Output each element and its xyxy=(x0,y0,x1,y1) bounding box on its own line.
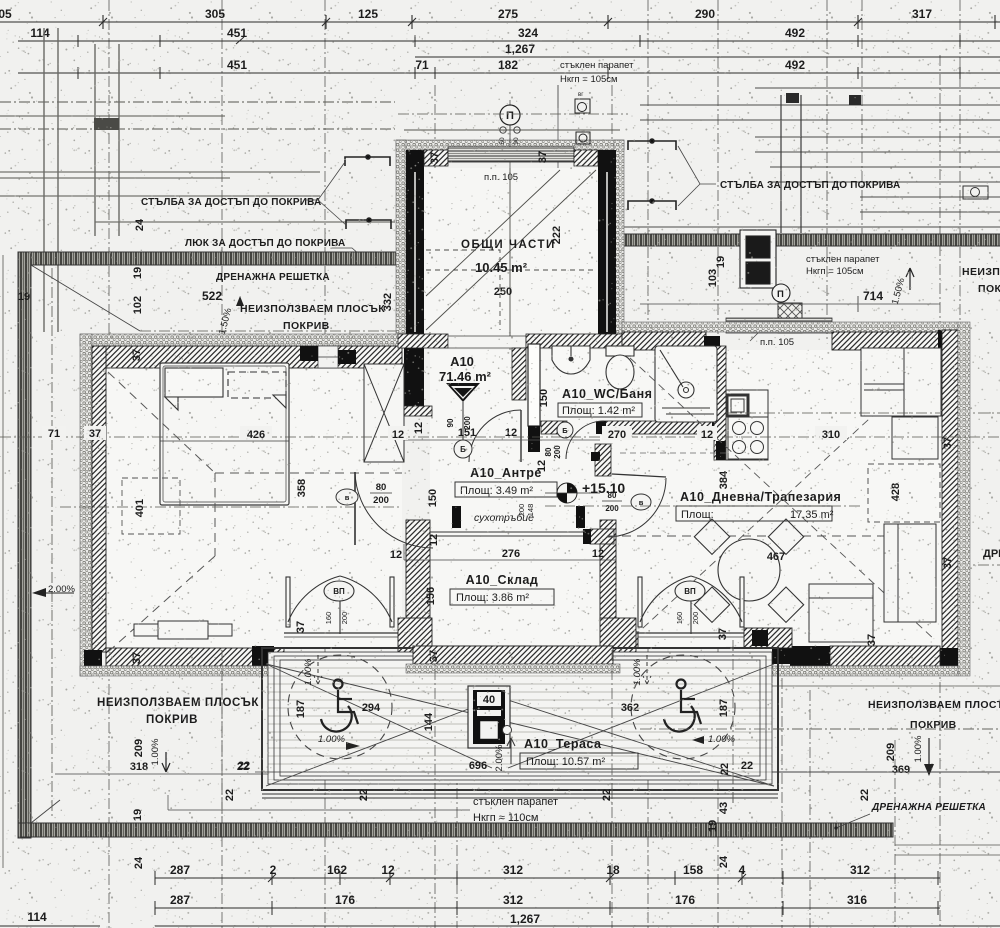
svg-text:287: 287 xyxy=(170,863,190,877)
gridline O xyxy=(894,740,896,928)
pillow 2 dashed xyxy=(228,372,286,408)
entrance triangle marker xyxy=(446,383,480,402)
shower xyxy=(655,346,717,422)
bottom-right stipple xyxy=(752,666,958,676)
gridline B xyxy=(221,0,223,928)
bathroom-living wall xyxy=(714,346,726,460)
storage top boundary xyxy=(430,532,600,536)
elevator shaft box xyxy=(468,686,510,748)
bottom dim row B line xyxy=(155,901,940,915)
pillow 1 xyxy=(165,368,223,410)
shaft top wall hatch L xyxy=(424,150,448,166)
wardrobe top right xyxy=(861,348,941,416)
svg-text:18: 18 xyxy=(606,863,620,877)
shaft window band xyxy=(448,147,574,162)
bench bedroom xyxy=(134,621,232,639)
svg-text:158: 158 xyxy=(683,863,703,877)
toilet xyxy=(606,346,634,389)
svg-text:312: 312 xyxy=(503,893,523,907)
entry-bath hatch pier xyxy=(512,348,526,400)
wheelchair circle R xyxy=(631,655,735,759)
gridline M xyxy=(939,55,941,928)
svg-text:1,267: 1,267 xyxy=(510,912,540,926)
roof drainage band top left xyxy=(18,252,430,265)
chimney block xyxy=(740,230,790,302)
svg-text:114: 114 xyxy=(27,910,47,924)
bedroom roof slope dashes xyxy=(108,372,402,652)
dim row1 line xyxy=(0,15,1000,29)
storage area box xyxy=(450,589,554,605)
gridline Q xyxy=(732,640,734,805)
VP oval bedroom xyxy=(324,581,354,601)
section column 2 xyxy=(95,44,119,236)
column cap dark xyxy=(94,118,119,130)
right wall hatch xyxy=(942,330,958,668)
terrace area box xyxy=(520,753,638,769)
shaft stipple outer top xyxy=(396,140,624,150)
bottom dim row A line xyxy=(155,871,940,885)
storage bottom wall xyxy=(413,646,613,664)
main horizontal dim line y437 xyxy=(0,436,1000,438)
gridline E xyxy=(456,560,458,928)
storage bottom stipple xyxy=(406,664,620,673)
circled B bath xyxy=(557,422,573,438)
circled v bedroom xyxy=(336,489,358,505)
gridline overlays over terrace xyxy=(222,640,1000,820)
circled v living xyxy=(631,494,651,510)
roof drainage band top right xyxy=(622,234,1000,246)
gridline F xyxy=(509,100,511,560)
bottom-right step wall xyxy=(744,628,792,648)
entrance door arc xyxy=(469,410,521,462)
black seg top-right xyxy=(704,336,720,350)
construction line bedroom xyxy=(60,506,400,508)
corner miter xyxy=(31,265,140,331)
entrance gap xyxy=(448,336,526,348)
bedroom bottom wall hatch xyxy=(106,648,284,666)
gridline A xyxy=(108,0,110,928)
masonry block xyxy=(778,303,802,333)
roof band bottom xyxy=(18,823,893,837)
shaft stipple outer right xyxy=(614,140,624,336)
dry riser pipes xyxy=(452,506,461,528)
gridline K xyxy=(826,0,828,340)
landing line above shaft xyxy=(404,129,620,131)
terrace deck xyxy=(268,652,772,780)
gridline C xyxy=(324,0,326,928)
wardrobe X xyxy=(364,364,404,462)
leaders xyxy=(305,162,346,225)
bedroom door arc xyxy=(355,472,433,548)
vent boxes above shaft right xyxy=(575,99,590,144)
bathroom left wall xyxy=(528,344,540,426)
gridline H xyxy=(647,0,649,928)
dining table xyxy=(694,519,803,622)
circled B entrance xyxy=(454,440,472,458)
cabinet right xyxy=(892,417,938,459)
gridline L xyxy=(861,0,863,240)
storage left wall xyxy=(406,520,430,620)
wc area box xyxy=(558,403,642,417)
construction line living xyxy=(545,505,862,507)
slope arrow 1.50% left xyxy=(217,296,244,336)
dashed unit right xyxy=(868,464,940,522)
storage right wall xyxy=(600,520,616,620)
top-right wall hatch A xyxy=(622,332,706,350)
svg-text:12: 12 xyxy=(381,863,395,877)
top wall behind shaft hatch R xyxy=(526,334,622,348)
top-left wall stipple xyxy=(80,334,406,346)
shaft interior xyxy=(424,168,598,336)
living room slope X xyxy=(630,358,935,640)
ladder symbol right lower xyxy=(628,199,676,210)
section column 1 xyxy=(44,28,58,332)
leaders right xyxy=(678,146,716,206)
bathroom door arc xyxy=(566,421,604,459)
bathroom bottom wall xyxy=(602,421,714,434)
gridline J xyxy=(781,640,783,928)
ladder symbol lower xyxy=(346,218,391,229)
wheelchair glyph R xyxy=(664,680,701,732)
storage bottom wall overlay xyxy=(413,646,613,664)
svg-text:176: 176 xyxy=(335,893,355,907)
black corner TL xyxy=(84,346,102,362)
black corner BL xyxy=(84,650,102,666)
shaft stipple outer left xyxy=(396,140,406,336)
wall stub under xyxy=(404,406,432,416)
parapet ref line xyxy=(557,85,559,233)
stub black bit xyxy=(591,452,600,461)
bedroom bottom black seg xyxy=(252,646,274,666)
shaft stair diagonals xyxy=(426,168,596,336)
bed xyxy=(160,363,289,505)
page edge line left xyxy=(2,255,4,868)
dark marks xyxy=(786,93,799,103)
storage dim line xyxy=(404,559,616,561)
gridline I xyxy=(717,0,719,928)
kitchen dashdot y413 xyxy=(726,412,940,414)
bedroom bottom stipple xyxy=(80,666,290,676)
shaft left wall black xyxy=(406,168,424,336)
dim row4 line xyxy=(18,67,1000,79)
labels on line xyxy=(42,426,847,441)
right side roof lines below xyxy=(640,413,1000,855)
svg-text:312: 312 xyxy=(503,863,523,877)
entry-living pier B xyxy=(590,529,614,544)
svg-text:4: 4 xyxy=(739,863,746,877)
kitchen counter xyxy=(726,390,768,460)
shaft right wall black xyxy=(598,168,616,336)
svg-text:316: 316 xyxy=(847,893,867,907)
leader xyxy=(332,248,368,262)
kitchen dashed line xyxy=(620,452,726,454)
bottom-right black seg xyxy=(790,646,830,666)
chair rotated xyxy=(809,584,873,642)
svg-text:162: 162 xyxy=(327,863,347,877)
svg-text:287: 287 xyxy=(170,893,190,907)
top-right wall stipple xyxy=(622,322,958,332)
dim row2 line xyxy=(18,35,1000,47)
horizontal section lines left xyxy=(0,102,395,222)
living ridge dashed xyxy=(607,535,935,537)
shaft top wall corner black L xyxy=(406,150,424,168)
black seg bedroom top xyxy=(300,346,318,361)
left wall hatch xyxy=(92,346,106,652)
svg-text:312: 312 xyxy=(850,863,870,877)
storage right corner xyxy=(600,618,636,664)
living area box xyxy=(676,506,832,521)
level mark xyxy=(557,483,577,503)
armchair bottom right xyxy=(884,524,936,622)
terrace-right threshold xyxy=(636,632,744,634)
black corner TR xyxy=(938,330,958,350)
black seg bedroom top 2 xyxy=(338,350,356,364)
entry-living wall stub xyxy=(595,444,611,476)
wheelchair glyph L xyxy=(321,680,358,732)
ladder symbol right upper xyxy=(628,139,676,150)
inner roof boundary dashdot xyxy=(52,268,400,818)
bottom-right wall hatch xyxy=(830,646,940,666)
bathroom sink xyxy=(552,346,590,374)
svg-text:2: 2 xyxy=(270,863,277,877)
french door bedroom side xyxy=(286,576,394,634)
terrace slope diagonals xyxy=(266,664,774,786)
wall bedroom-entry black xyxy=(404,342,424,412)
wheelchair circle L xyxy=(288,655,392,759)
VP oval living xyxy=(675,581,705,601)
svg-text:176: 176 xyxy=(675,893,695,907)
right wall stipple xyxy=(958,322,970,676)
stair column pair xyxy=(781,95,801,233)
storage left corner xyxy=(398,618,432,664)
dashed cabinet bedroom xyxy=(122,478,180,534)
roof band left vertical xyxy=(18,252,31,838)
parapet lines below terrace xyxy=(262,793,778,795)
ladder symbol upper xyxy=(345,155,390,166)
top-left wall hatch xyxy=(104,346,402,368)
black corner BR xyxy=(938,648,958,666)
bathroom bottom black L xyxy=(596,421,606,434)
small door dim lines bedroom xyxy=(403,544,405,560)
neighbour structure lines top right xyxy=(622,88,1000,227)
terrace border rails xyxy=(262,648,778,790)
entry area box xyxy=(455,482,557,497)
dim row3 xyxy=(415,56,1000,58)
top wall behind shaft hatch L xyxy=(398,334,448,348)
gridline P xyxy=(809,690,811,928)
shaft top wall hatch R xyxy=(574,150,598,166)
left wall stipple xyxy=(80,334,92,676)
vent circle symbol right xyxy=(963,186,988,199)
window band right of shaft xyxy=(726,318,832,333)
П circle above shaft xyxy=(500,105,520,125)
living door arc xyxy=(607,478,666,537)
bedroom window gap xyxy=(318,346,338,368)
dim line 696 xyxy=(255,771,700,773)
french door living side xyxy=(638,576,744,634)
bathroom bottom black R xyxy=(712,421,726,434)
gridline G xyxy=(611,85,613,928)
terrace-left threshold xyxy=(284,632,406,634)
black pier xyxy=(808,318,820,333)
shaft top wall corner black R xyxy=(598,150,616,168)
gridline N xyxy=(959,0,961,330)
top-right wall hatch B xyxy=(832,332,942,350)
gridline D xyxy=(434,85,436,928)
